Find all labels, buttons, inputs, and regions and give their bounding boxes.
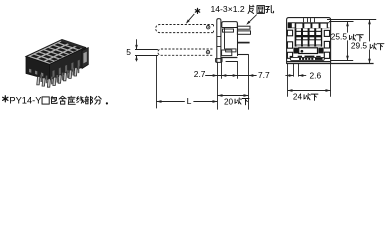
svg-text:5: 5 <box>126 47 131 57</box>
svg-text:25.5: 25.5 <box>331 32 348 42</box>
svg-text:7.7: 7.7 <box>258 70 270 80</box>
svg-text:20: 20 <box>224 97 234 106</box>
svg-text:PY14-Y: PY14-Y <box>9 96 41 106</box>
svg-text:L: L <box>187 96 192 106</box>
svg-text:2.6: 2.6 <box>310 71 322 81</box>
svg-text:2.7: 2.7 <box>194 69 206 79</box>
svg-text:29.5: 29.5 <box>351 41 368 51</box>
svg-text:24: 24 <box>293 93 303 102</box>
svg-text:14-3×1.2: 14-3×1.2 <box>211 4 245 14</box>
